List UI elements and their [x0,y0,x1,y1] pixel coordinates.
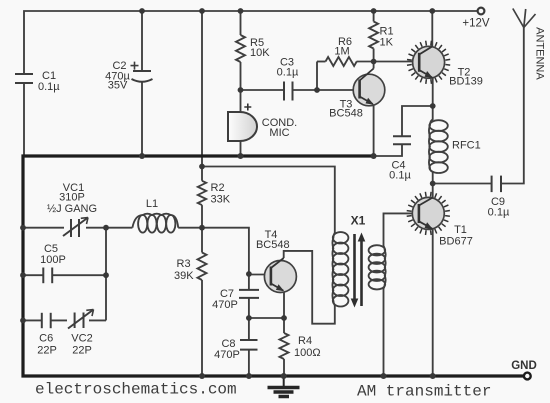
svg-text:0.1µ: 0.1µ [389,170,411,182]
wire R1 bottom lead [373,49,375,62]
wire C2 column top [141,11,143,71]
transistor T3 BC548 [353,69,385,106]
capacitor C1 [15,74,33,83]
capacitor C7 [239,290,259,298]
wire RFC1 top lead [432,106,434,120]
wire R4 top lead [283,318,285,333]
svg-text:0.1µ: 0.1µ [488,207,510,219]
wire mic bottom [240,141,242,156]
svg-text:0.1µ: 0.1µ [277,67,299,79]
svg-text:39K: 39K [174,270,194,282]
wire T2 base [374,61,420,63]
wire R3 bottom to ground [201,280,203,376]
svg-text:X1: X1 [351,214,366,228]
capacitor C5 [43,268,52,284]
svg-text:33K: 33K [211,194,231,206]
wire C2 column bottom [141,81,143,156]
wire tank column VC1 node down [105,228,107,321]
transistor T1 BD677 [407,192,450,235]
variable capacitor VC1 [63,218,88,238]
wire +12V supply node to X1 primary top [202,167,335,234]
wire tank node to C7 column [202,228,249,290]
wire T3 collector [373,62,375,69]
svg-text:RFC1: RFC1 [452,140,481,152]
transistor T2 BD139 [407,41,450,84]
svg-text:10K: 10K [250,47,270,59]
wire L1 to tank node [178,227,202,229]
svg-text:470P: 470P [214,349,240,361]
wire VC1 to L1 [86,227,132,229]
svg-text:MIC: MIC [269,127,289,139]
svg-text:R3: R3 [177,258,191,270]
wire mic node to C3 [241,89,285,91]
ground symbol [268,376,300,397]
wire T3 emitter to ground bus [373,105,375,157]
resistor R2 [198,181,206,205]
transformer X1 core arrows [351,233,366,308]
wire T4 collector to X1 primary bottom [284,251,335,324]
wire C7 bottom to emitter node [248,298,250,340]
wire R2 column from rail [201,11,203,181]
wire T3 base node up to R6 [316,62,318,91]
wire T1 collector [432,184,434,198]
svg-text:310P: 310P [59,192,85,204]
svg-text:R4: R4 [298,335,312,347]
wire VC1 left lead [23,227,64,229]
variable capacitor VC2 [68,310,94,329]
condenser microphone MIC [228,104,257,142]
svg-text:AM transmitter: AM transmitter [357,383,491,401]
wire C4 bottom to ground bus [374,144,402,156]
wire R4 bottom lead [283,359,285,376]
wire T1 emitter to bottom bus [432,229,434,376]
wire emitter node to C7 column [249,317,284,319]
svg-text:22P: 22P [37,345,57,357]
capacitor C8 [240,340,258,350]
terminal GND [524,373,531,380]
resistor R3 [198,253,207,280]
svg-text:1M: 1M [334,46,349,58]
wire RFC node to C4 top [402,106,433,136]
svg-text:0.1µ: 0.1µ [38,81,60,93]
svg-text:R2: R2 [211,182,225,194]
svg-text:electroschematics.com: electroschematics.com [35,381,237,399]
svg-text:BC548: BC548 [256,239,290,251]
svg-text:1K: 1K [380,37,394,49]
wire C1 bottom to ground bus [23,83,25,156]
wire R5 bottom lead to mic node [240,62,242,112]
wire T4 base [249,274,271,276]
wire R2 to R3 link [201,205,203,252]
svg-text:100P: 100P [40,254,66,266]
resistor R6 (horizontal) [326,57,357,66]
transistor T4 BC548 [264,258,296,293]
capacitor C6 [42,313,51,328]
svg-text:+12V: +12V [462,18,490,30]
wire C6 left lead [23,319,42,321]
wire C5 right lead [52,274,106,276]
svg-text:T1: T1 [454,224,467,236]
svg-text:BC548: BC548 [329,108,363,120]
svg-text:22P: 22P [72,345,92,357]
wire R6 right lead to R1 node [357,61,374,63]
inductor L1 [132,214,178,233]
wire C8 bottom to ground [248,350,250,376]
capacitor C4 [393,136,411,144]
svg-text:BD677: BD677 [439,236,473,248]
wire T2 emitter to RFC node [432,78,434,106]
svg-text:GND: GND [511,360,537,372]
wire T2 collector from rail [431,11,433,47]
inductor RFC1 [429,120,448,174]
wire C3 to T3 base node [293,89,318,91]
svg-text:ANTENNA: ANTENNA [534,27,546,80]
wire R1 top lead [373,11,375,22]
wire VC2 right lead [89,319,106,321]
svg-text:VC2: VC2 [71,333,92,345]
wire C5 left lead [23,274,43,276]
transformer X1 secondary coil [369,245,386,289]
wire RFC1 bottom lead [432,171,434,184]
capacitor C2 (electrolytic) [131,62,153,82]
wire R5 top lead [240,11,242,35]
svg-text:BD139: BD139 [449,76,483,88]
terminal +12V [478,8,485,15]
svg-text:C6: C6 [39,333,53,345]
wire T4 emitter [283,291,285,318]
wire T3 base [317,89,360,91]
antenna symbol [513,9,536,28]
svg-text:L1: L1 [146,198,158,210]
wire X1 secondary bottom to ground [383,289,385,377]
svg-text:100Ω: 100Ω [294,347,321,359]
capacitor C3 [284,82,293,101]
transformer X1 primary coil [332,232,348,306]
svg-text:½J GANG: ½J GANG [47,203,97,215]
resistor R5 [236,35,245,62]
capacitor C9 [492,176,501,193]
wire C9 left lead [433,183,492,185]
wire X1 secondary top to T1 base [384,213,419,246]
wire C6 to VC2 [51,319,67,321]
resistor R4 [280,333,289,359]
resistor R1 [369,22,378,49]
wire thick ground bus middle [23,156,524,376]
svg-text:470P: 470P [212,299,238,311]
wire top +12V rail [24,11,478,74]
wire R6 left lead [317,61,326,63]
wire C9 right lead to antenna [501,28,524,184]
svg-text:35V: 35V [108,80,128,92]
